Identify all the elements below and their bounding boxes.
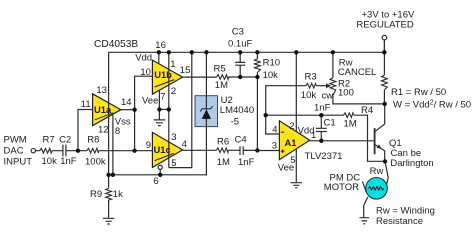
svg-text:LM4040: LM4040 xyxy=(220,105,254,116)
capacitor C4 xyxy=(240,146,243,155)
svg-text:100: 100 xyxy=(338,88,354,99)
transistor Q1 xyxy=(374,128,382,154)
zener diode U2 LM4040 xyxy=(195,96,218,127)
resistor R2 xyxy=(330,78,336,96)
junction A1 output / C1 bottom xyxy=(319,139,323,143)
junction Vdd rail / U1b pin1 xyxy=(167,50,171,54)
svg-text:PWM: PWM xyxy=(4,135,27,146)
junction U1b pin2 / U1c pin3 xyxy=(167,107,171,111)
junction Vdd rail / R2 xyxy=(331,50,335,54)
junction R5 / R10 xyxy=(255,75,259,79)
junction Vdd rail / A1 pin2 xyxy=(294,50,298,54)
resistor R5 xyxy=(217,75,229,80)
capacitor C1 xyxy=(316,128,327,131)
svg-text:cw: cw xyxy=(322,90,334,101)
capacitor C3 xyxy=(235,62,245,65)
wire C3 stubs xyxy=(239,52,241,77)
svg-text:Rw: Rw xyxy=(370,166,384,177)
resistor R6 xyxy=(216,148,228,153)
wire -5V rail xyxy=(109,52,207,175)
svg-text:Vee: Vee xyxy=(142,96,158,107)
wire R3 left to summing node to pin 4 xyxy=(266,86,306,134)
svg-text:R1 = Rw / 50: R1 = Rw / 50 xyxy=(391,87,446,98)
svg-text:A1: A1 xyxy=(285,137,297,148)
resistor R4 xyxy=(344,113,355,118)
resistor R8 xyxy=(87,148,99,153)
op-amp A1 (TLV2371) triangle xyxy=(279,121,309,160)
junction Vdd rail / U2 xyxy=(204,50,208,54)
wire Vss pin 8 stub xyxy=(112,115,114,175)
svg-text:4: 4 xyxy=(182,139,187,150)
svg-text:100k: 100k xyxy=(85,156,106,167)
svg-text:1: 1 xyxy=(311,130,316,141)
svg-text:U1b: U1b xyxy=(154,69,172,80)
svg-text:1M: 1M xyxy=(217,157,230,168)
junction R1 / R2 / Q1 collector xyxy=(383,102,387,106)
wire U1a pins 13/12 vertical through-line xyxy=(108,52,110,175)
svg-text:2: 2 xyxy=(289,121,294,132)
wire R2 top stub xyxy=(332,52,334,78)
junction U1a pin14 output node xyxy=(132,108,136,112)
svg-text:-5: -5 xyxy=(231,116,239,127)
junction summing node / A1 pin4 xyxy=(264,113,268,117)
wire A1 Vee pin 5 stub xyxy=(295,149,297,183)
svg-text:6: 6 xyxy=(153,176,158,187)
svg-text:1k: 1k xyxy=(113,189,123,200)
junction Vdd rail / supply input xyxy=(382,50,386,54)
svg-text:C4: C4 xyxy=(235,134,247,145)
wire motor top terminal xyxy=(385,161,388,184)
junction Vdd rail / R10 xyxy=(255,50,259,54)
svg-text:R9: R9 xyxy=(90,189,102,200)
svg-text:R10: R10 xyxy=(263,58,280,69)
wire ground link segment xyxy=(159,108,168,110)
svg-text:12: 12 xyxy=(98,124,109,135)
svg-text:R6: R6 xyxy=(217,137,229,148)
wire Q1 collector xyxy=(375,104,384,131)
svg-text:REGULATED: REGULATED xyxy=(356,20,414,31)
svg-text:MOTOR: MOTOR xyxy=(324,182,359,193)
ground (A1 Vee) xyxy=(291,183,302,188)
svg-text:1M: 1M xyxy=(344,119,357,130)
junction Vdd rail / U1c pin5 line xyxy=(190,50,194,54)
svg-text:1M: 1M xyxy=(215,80,228,91)
svg-text:R4: R4 xyxy=(361,105,373,116)
op-amp U1b (CD4053B switch b) triangle xyxy=(152,60,182,94)
svg-text:C3: C3 xyxy=(232,26,244,37)
svg-text:Darlington: Darlington xyxy=(390,158,433,169)
svg-text:R8: R8 xyxy=(87,135,99,146)
junction -5V rail / Vss pin8 xyxy=(111,173,115,177)
junction Vee pin7 / ground link xyxy=(157,107,161,111)
svg-text:11: 11 xyxy=(81,99,91,110)
svg-text:CANCEL: CANCEL xyxy=(338,67,377,78)
motor PM DC xyxy=(366,178,388,200)
svg-text:1nF: 1nF xyxy=(238,157,255,168)
wire R10 stubs and long vertical xyxy=(256,52,258,150)
capacitor C2 xyxy=(63,145,66,157)
svg-text:0.1uF: 0.1uF xyxy=(228,39,252,50)
svg-text:10k: 10k xyxy=(301,90,317,101)
wire U1b pins 1/2 through-line down to U1c pin 3 xyxy=(168,52,170,167)
svg-text:9: 9 xyxy=(146,140,151,151)
svg-text:CD4053B: CD4053B xyxy=(94,39,138,50)
resistor R1 xyxy=(382,75,388,90)
svg-text:R5: R5 xyxy=(214,64,226,75)
junction summing node / C1 top xyxy=(319,113,323,117)
wire motor leader xyxy=(362,181,366,192)
svg-text:Vdd: Vdd xyxy=(135,53,152,64)
wire input line PWM xyxy=(36,150,153,152)
svg-text:C1: C1 xyxy=(324,117,336,128)
svg-text:3: 3 xyxy=(272,140,277,151)
wire Vee pin 7 stub to ground xyxy=(158,90,160,120)
ground (R9) xyxy=(103,218,114,224)
svg-text:Vee: Vee xyxy=(278,162,294,173)
svg-text:C2: C2 xyxy=(59,135,71,146)
op-amp U1c (CD4053B switch c) triangle xyxy=(152,132,182,167)
ground (Vee pin 7) xyxy=(154,120,166,126)
svg-text:10: 10 xyxy=(140,67,151,78)
svg-text:16: 16 xyxy=(155,40,166,51)
wire A1 Vdd pin 2 stub xyxy=(295,52,297,131)
wire C1 stubs xyxy=(320,115,322,141)
resistor R9 xyxy=(106,188,112,200)
svg-text:Rw = Winding: Rw = Winding xyxy=(376,206,435,217)
junction Q1 emitter / R4 / motor xyxy=(383,159,387,163)
svg-text:Resistance: Resistance xyxy=(376,216,423,227)
wire R3 right with wiper arrow xyxy=(316,85,327,87)
junction R5 / C3 xyxy=(238,75,242,79)
junction Vdd rail / pin16 stub xyxy=(157,50,161,54)
resistor R7 xyxy=(40,148,53,153)
node input terminal circle xyxy=(31,149,35,153)
svg-text:R7: R7 xyxy=(43,135,55,146)
svg-text:1nF: 1nF xyxy=(60,156,77,167)
pin 6 inverter bubble xyxy=(158,165,162,169)
wire R1 stubs xyxy=(383,40,385,104)
ground (motor) xyxy=(360,218,370,224)
wire pin 11 control xyxy=(78,110,93,151)
wire R2 bottom to Q1 collector node xyxy=(333,95,385,104)
svg-text:DAC: DAC xyxy=(4,145,24,156)
wire supply terminal stub xyxy=(383,40,385,52)
svg-text:14: 14 xyxy=(121,97,132,108)
svg-text:13: 13 xyxy=(96,85,107,96)
wire Vdd top rail xyxy=(109,51,385,53)
wire Q1 emitter xyxy=(375,145,384,162)
svg-text:U1c: U1c xyxy=(154,144,171,155)
wire motor bottom to ground xyxy=(364,197,368,218)
svg-text:3: 3 xyxy=(171,132,176,143)
svg-text:1nF: 1nF xyxy=(314,103,331,114)
wire A1 output to Q1 base xyxy=(310,140,374,142)
svg-text:INPUT: INPUT xyxy=(4,156,33,167)
svg-text:R3: R3 xyxy=(305,71,317,82)
svg-text:15: 15 xyxy=(180,65,191,76)
wire pin 6 inhibit stub xyxy=(159,169,161,174)
svg-text:5: 5 xyxy=(171,158,176,169)
svg-text:10k: 10k xyxy=(263,70,279,81)
svg-text:4: 4 xyxy=(272,125,277,136)
svg-text:10k: 10k xyxy=(42,156,58,167)
svg-text:2: 2 xyxy=(171,86,176,97)
svg-text:TLV2371: TLV2371 xyxy=(305,151,343,162)
junction -5V rail / pin6 xyxy=(158,173,162,177)
junction C2 / R8 / pin11 xyxy=(76,149,80,153)
svg-text:8: 8 xyxy=(115,126,120,137)
junction C4 / A1 pin3 node xyxy=(255,148,259,152)
wire U1b output pin 15 to R5 to C3/R10 node xyxy=(183,76,258,78)
junction R8 / U1c pin9 xyxy=(132,149,136,153)
node supply terminal circle xyxy=(382,35,387,40)
svg-text:7: 7 xyxy=(160,91,165,102)
wire pin 10 control path xyxy=(135,76,153,151)
resistor R3 xyxy=(306,83,316,88)
wire U1a output pin 14 xyxy=(121,109,135,111)
wire U1c pin 5 to Vdd rail L-path xyxy=(169,52,192,167)
wire summing node line with R4 to emitter xyxy=(266,115,385,161)
svg-text:U1a: U1a xyxy=(94,104,112,115)
resistor R10 xyxy=(255,59,261,73)
junction -5V rail / pin12 / R9 xyxy=(106,173,110,177)
wire U1c output pin 4 row with R6 C4 xyxy=(183,149,280,151)
wire Vdd pin 16 stub xyxy=(158,52,160,64)
wire R9 stubs xyxy=(108,175,110,218)
junction Vdd rail / C3 xyxy=(238,50,242,54)
op-amp U1a (CD4053B switch a) triangle xyxy=(93,94,121,126)
